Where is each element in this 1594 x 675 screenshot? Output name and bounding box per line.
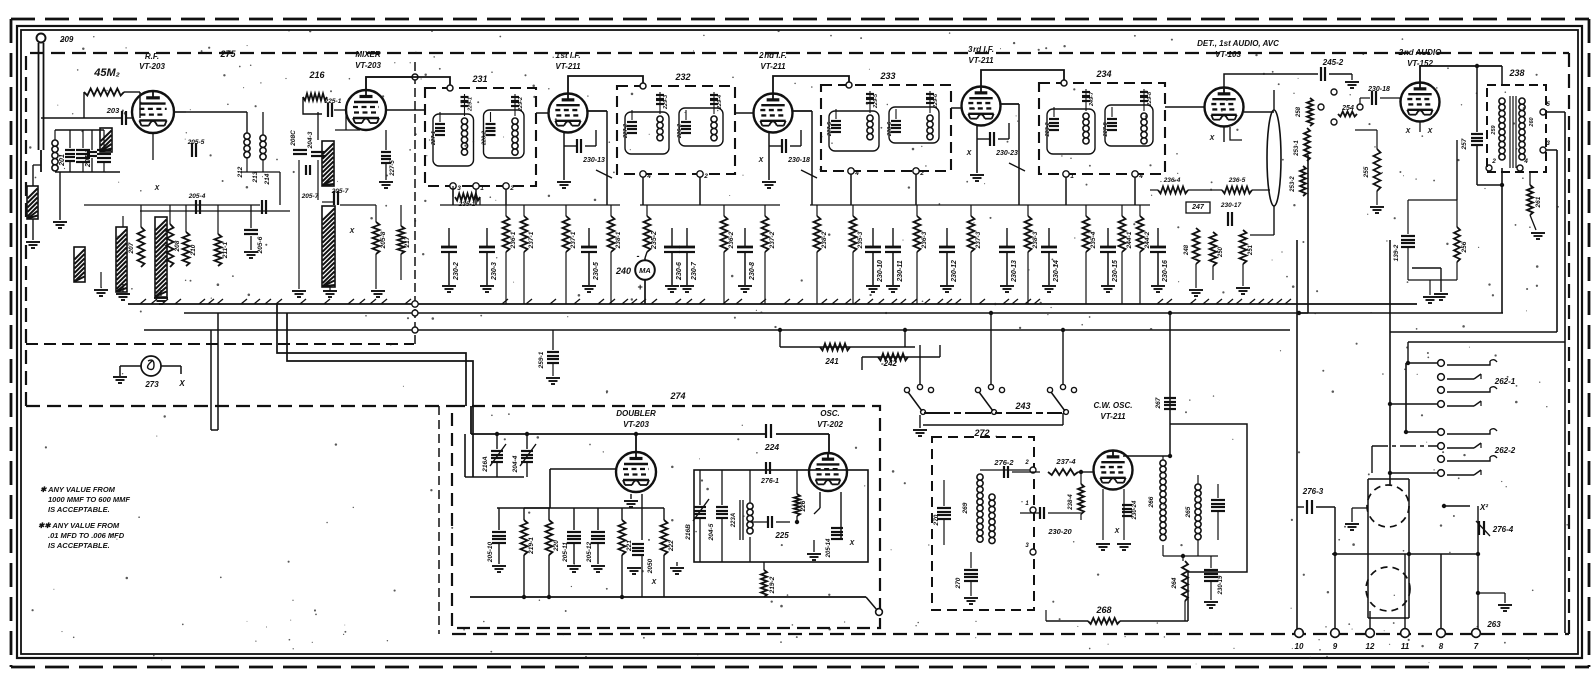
svg-text:214: 214 xyxy=(264,173,271,185)
svg-text:X²: X² xyxy=(1479,503,1488,512)
svg-text:211-1: 211-1 xyxy=(222,242,229,260)
svg-text:2 nd AUDIO: 2 nd AUDIO xyxy=(1398,48,1442,57)
svg-text:210: 210 xyxy=(190,244,197,256)
svg-text:230-24: 230-24 xyxy=(1132,500,1138,520)
svg-text:C.W. OSC.: C.W. OSC. xyxy=(1094,401,1133,410)
svg-text:238-2: 238-2 xyxy=(821,231,828,249)
svg-text:232: 232 xyxy=(674,72,690,82)
svg-text:229-1: 229-1 xyxy=(468,97,474,112)
svg-text:274: 274 xyxy=(669,391,685,401)
svg-text:237-1: 237-1 xyxy=(570,231,577,249)
svg-text:45M₂: 45M₂ xyxy=(93,67,120,79)
svg-text:5: 5 xyxy=(1546,101,1550,108)
svg-text:263: 263 xyxy=(1486,620,1501,629)
svg-text:230-14: 230-14 xyxy=(1053,260,1060,283)
svg-text:205-8: 205-8 xyxy=(380,231,387,249)
svg-text:230-18: 230-18 xyxy=(1367,86,1390,93)
svg-text:230-11: 230-11 xyxy=(897,260,904,282)
svg-text:262-1: 262-1 xyxy=(1494,377,1516,386)
svg-text:204-5: 204-5 xyxy=(708,523,715,541)
svg-text:276-3: 276-3 xyxy=(1302,487,1324,496)
svg-text:220: 220 xyxy=(553,540,560,552)
svg-text:276-2: 276-2 xyxy=(993,458,1014,467)
svg-text:276-4: 276-4 xyxy=(1492,525,1514,534)
svg-text:MA: MA xyxy=(639,266,651,275)
svg-text:236-1: 236-1 xyxy=(510,231,517,249)
svg-text:276-1: 276-1 xyxy=(760,478,779,485)
svg-text:230-13: 230-13 xyxy=(582,157,605,164)
svg-text:241: 241 xyxy=(824,357,839,366)
svg-text:230-16: 230-16 xyxy=(1162,260,1169,283)
svg-text:-: - xyxy=(637,251,640,261)
svg-text:1 st I.F.: 1 st I.F. xyxy=(555,51,580,60)
svg-text:235-1: 235-1 xyxy=(458,201,476,208)
svg-text:230-19: 230-19 xyxy=(1218,575,1224,595)
svg-text:222: 222 xyxy=(668,540,675,552)
svg-text:236-5: 236-5 xyxy=(1228,177,1246,184)
svg-text:227-2: 227-2 xyxy=(623,124,629,139)
svg-text:205-7: 205-7 xyxy=(331,188,349,195)
svg-text:216B: 216B xyxy=(685,524,692,541)
svg-text:139-2: 139-2 xyxy=(1393,244,1400,261)
svg-text:228-2: 228-2 xyxy=(482,131,488,146)
svg-text:VT-211: VT-211 xyxy=(760,62,786,71)
svg-text:230-12: 230-12 xyxy=(951,260,958,283)
svg-text:257: 257 xyxy=(1461,138,1468,150)
svg-text:205-7: 205-7 xyxy=(301,193,319,200)
svg-text:R.F.: R.F. xyxy=(145,52,159,61)
svg-text:236-3: 236-3 xyxy=(921,231,928,249)
svg-text:225: 225 xyxy=(774,531,789,540)
svg-text:230-5: 230-5 xyxy=(593,262,600,281)
svg-text:2: 2 xyxy=(919,170,924,177)
svg-text:238: 238 xyxy=(1508,68,1524,78)
svg-text:10: 10 xyxy=(1295,642,1304,651)
svg-text:243: 243 xyxy=(1014,401,1030,411)
svg-text:249-7: 249-7 xyxy=(1089,91,1095,107)
svg-text:204-4: 204-4 xyxy=(512,455,519,473)
svg-text:223-2: 223-2 xyxy=(1045,122,1051,137)
svg-text:2050: 2050 xyxy=(647,558,654,574)
svg-text:237-4: 237-4 xyxy=(1055,457,1076,466)
svg-text:3 rd I.F.: 3 rd I.F. xyxy=(968,45,994,54)
svg-text:273: 273 xyxy=(144,380,159,389)
svg-text:MIXER: MIXER xyxy=(355,50,381,59)
svg-text:264: 264 xyxy=(1171,577,1178,589)
svg-text:201: 201 xyxy=(59,154,66,167)
svg-text:2: 2 xyxy=(1024,460,1029,466)
svg-text:230-15: 230-15 xyxy=(1112,260,1119,283)
svg-text:3: 3 xyxy=(1546,140,1550,147)
svg-text:261: 261 xyxy=(1535,196,1542,208)
svg-text:226: 226 xyxy=(800,500,807,512)
svg-text:12: 12 xyxy=(1366,642,1375,651)
svg-text:227-8: 227-8 xyxy=(1103,122,1109,138)
svg-text:266: 266 xyxy=(1148,496,1155,508)
svg-text:2 nd I.F.: 2 nd I.F. xyxy=(758,51,787,60)
svg-text:205-5: 205-5 xyxy=(187,139,205,146)
svg-text:219-1: 219-1 xyxy=(528,537,535,555)
svg-text:208C: 208C xyxy=(290,130,297,147)
svg-text:217: 217 xyxy=(404,236,411,248)
svg-text:251: 251 xyxy=(1248,244,1254,256)
svg-text:265: 265 xyxy=(1185,506,1192,518)
svg-text:229-6: 229-6 xyxy=(933,93,939,109)
svg-text:9: 9 xyxy=(1333,642,1338,651)
svg-text:+: + xyxy=(637,282,643,292)
svg-text:205-11: 205-11 xyxy=(562,542,569,563)
svg-text:✱✱ ANY VALUE FROM: ✱✱ ANY VALUE FROM xyxy=(38,521,120,530)
svg-text:229-8: 229-8 xyxy=(1147,91,1153,107)
svg-text:228-6: 228-6 xyxy=(887,121,893,137)
svg-text:-242: -242 xyxy=(881,359,898,368)
svg-text:VT-203: VT-203 xyxy=(623,420,649,429)
svg-text:247: 247 xyxy=(1191,204,1205,211)
svg-text:2: 2 xyxy=(1491,158,1496,165)
svg-text:219-2: 219-2 xyxy=(769,576,776,594)
svg-text:224: 224 xyxy=(764,442,779,452)
svg-text:225-1: 225-1 xyxy=(324,98,342,105)
svg-text:1: 1 xyxy=(1070,173,1074,180)
svg-text:256: 256 xyxy=(1461,241,1468,253)
svg-text:230-3: 230-3 xyxy=(491,262,498,281)
svg-text:250: 250 xyxy=(1218,246,1224,258)
svg-text:204-3: 204-3 xyxy=(307,131,314,149)
svg-text:240: 240 xyxy=(615,266,631,276)
svg-text:230-8: 230-8 xyxy=(749,262,756,281)
svg-text:207: 207 xyxy=(128,242,135,254)
svg-text:✱ ANY VALUE FROM: ✱ ANY VALUE FROM xyxy=(40,485,116,494)
svg-text:.01 MFD TO .006 MFD: .01 MFD TO .006 MFD xyxy=(48,531,125,540)
svg-text:230-2: 230-2 xyxy=(453,262,460,281)
svg-text:213: 213 xyxy=(252,171,259,183)
svg-text:2: 2 xyxy=(509,185,514,192)
svg-text:DOUBLER: DOUBLER xyxy=(616,409,656,418)
svg-text:VT-211: VT-211 xyxy=(555,62,581,71)
svg-text:4: 4 xyxy=(1523,158,1528,165)
svg-text:1: 1 xyxy=(480,185,484,192)
svg-text:262-2: 262-2 xyxy=(1494,446,1516,455)
svg-text:X: X xyxy=(178,379,185,388)
svg-text:203: 203 xyxy=(106,106,120,115)
svg-text:4: 4 xyxy=(854,170,859,177)
svg-text:216: 216 xyxy=(308,70,325,80)
svg-text:230-10: 230-10 xyxy=(877,260,884,283)
svg-text:259-1: 259-1 xyxy=(538,351,545,369)
svg-text:VT-103: VT-103 xyxy=(1215,50,1241,59)
svg-text:209: 209 xyxy=(59,35,74,44)
svg-text:229-4: 229-4 xyxy=(717,95,723,110)
svg-text:2: 2 xyxy=(703,173,708,180)
svg-text:253-2: 253-2 xyxy=(1290,176,1296,193)
svg-text:223A: 223A xyxy=(731,513,737,528)
svg-text:VT-203: VT-203 xyxy=(139,62,165,71)
svg-text:11: 11 xyxy=(1401,642,1410,651)
svg-text:267: 267 xyxy=(1155,397,1162,409)
svg-text:236-4: 236-4 xyxy=(1163,177,1181,184)
svg-text:IS ACCEPTABLE.: IS ACCEPTABLE. xyxy=(48,541,110,550)
svg-text:205-14: 205-14 xyxy=(826,538,832,558)
svg-text:235-3: 235-3 xyxy=(857,231,864,249)
svg-text:4: 4 xyxy=(646,173,651,180)
svg-text:270: 270 xyxy=(933,514,940,526)
svg-text:237-3: 237-3 xyxy=(975,231,982,249)
svg-text:230-20: 230-20 xyxy=(1047,527,1072,536)
svg-text:205-6: 205-6 xyxy=(257,236,264,254)
svg-text:234: 234 xyxy=(1095,69,1111,79)
svg-text:230-17: 230-17 xyxy=(1220,202,1242,209)
svg-text:230-7: 230-7 xyxy=(691,261,698,281)
svg-text:268: 268 xyxy=(1095,605,1111,615)
svg-text:237-1: 237-1 xyxy=(528,231,535,249)
svg-text:237-2: 237-2 xyxy=(769,231,776,249)
svg-text:230-18: 230-18 xyxy=(787,157,810,164)
svg-text:208: 208 xyxy=(174,240,181,252)
svg-text:VT-211: VT-211 xyxy=(968,56,994,65)
svg-text:7: 7 xyxy=(1474,642,1479,651)
svg-text:VT-203: VT-203 xyxy=(355,61,381,70)
svg-text:238-1: 238-1 xyxy=(615,231,622,249)
svg-text:233: 233 xyxy=(879,71,895,81)
svg-text:8: 8 xyxy=(1439,642,1444,651)
svg-text:VT-211: VT-211 xyxy=(1100,412,1126,421)
svg-text:254: 254 xyxy=(1341,105,1354,112)
svg-text:244-2: 244-2 xyxy=(1144,231,1151,249)
svg-text:244-1: 244-1 xyxy=(1126,231,1133,249)
svg-text:205-4: 205-4 xyxy=(188,193,206,200)
svg-text:OSC.: OSC. xyxy=(820,409,840,418)
svg-text:DET., 1st AUDIO, AVC: DET., 1st AUDIO, AVC xyxy=(1197,39,1279,48)
svg-text:270: 270 xyxy=(955,577,962,589)
svg-text:231: 231 xyxy=(471,74,487,84)
svg-text:230-23: 230-23 xyxy=(995,150,1018,157)
svg-text:IS ACCEPTABLE.: IS ACCEPTABLE. xyxy=(48,505,110,514)
svg-text:238-4: 238-4 xyxy=(1068,494,1074,511)
svg-text:260: 260 xyxy=(1529,117,1535,127)
svg-text:227-1: 227-1 xyxy=(431,131,437,146)
svg-text:1000 MMF TO 600 MMF: 1000 MMF TO 600 MMF xyxy=(48,495,130,504)
svg-text:229-2: 229-2 xyxy=(518,97,524,112)
svg-text:259: 259 xyxy=(1491,124,1497,135)
svg-text:258: 258 xyxy=(1296,106,1302,118)
svg-text:229-3: 229-3 xyxy=(663,95,669,110)
svg-text:269: 269 xyxy=(962,502,969,514)
svg-text:236-2: 236-2 xyxy=(728,231,735,249)
svg-text:238-3: 238-3 xyxy=(1032,231,1039,249)
svg-text:227-5: 227-5 xyxy=(827,121,833,137)
svg-text:245-2: 245-2 xyxy=(1322,58,1344,67)
svg-text:248: 248 xyxy=(1184,244,1190,256)
svg-text:216A: 216A xyxy=(482,456,489,473)
svg-text:4: 4 xyxy=(1138,173,1143,180)
svg-text:255: 255 xyxy=(1363,166,1370,178)
svg-text:235-4: 235-4 xyxy=(1090,231,1097,249)
svg-text:227-5: 227-5 xyxy=(390,160,396,177)
svg-text:226-2: 226-2 xyxy=(677,124,683,139)
svg-text:205-12: 205-12 xyxy=(586,542,593,564)
svg-text:VT-202: VT-202 xyxy=(817,420,843,429)
svg-text:229-5: 229-5 xyxy=(873,93,879,109)
svg-text:205-10: 205-10 xyxy=(487,542,494,564)
svg-text:221: 221 xyxy=(626,540,633,552)
svg-text:253-1: 253-1 xyxy=(1294,140,1300,157)
svg-text:230-13: 230-13 xyxy=(1011,260,1018,283)
svg-text:235-2: 235-2 xyxy=(651,231,658,250)
